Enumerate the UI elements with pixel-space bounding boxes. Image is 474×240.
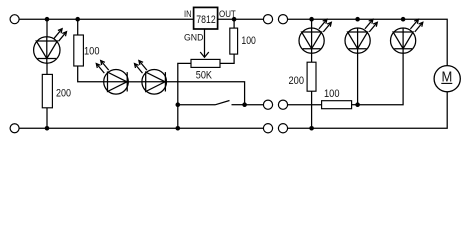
wire switch node to middle connector xyxy=(245,104,264,106)
svg-text:7812: 7812 xyxy=(196,14,215,26)
terminal connector top row left xyxy=(263,15,272,24)
node junction top rail / LED D1 xyxy=(45,17,50,22)
switch SW1 xyxy=(178,101,245,105)
wire middle connector to resistor R5 xyxy=(288,104,322,106)
wire OUT pin to top connector xyxy=(218,18,263,20)
node junction R4 / bottom rail xyxy=(309,126,314,131)
wiper arrowhead xyxy=(200,52,209,57)
terminal T1 (top left supply input) xyxy=(10,15,19,24)
wire pot left terminal left and down to rails xyxy=(178,63,191,128)
resistor R5 body (100 ohm horizontal) xyxy=(322,101,352,109)
LED D4 (right lamp 1, pointing down) xyxy=(299,19,331,53)
terminal connector middle row right xyxy=(278,100,287,109)
node junction bottom rail / R1 xyxy=(45,126,50,131)
svg-text:IN: IN xyxy=(184,9,192,19)
wire top rail down to resistor R2 xyxy=(77,19,79,35)
wire LED D3 right then down to switch node xyxy=(167,82,245,105)
wire between LED D2 and LED D3 xyxy=(128,81,142,83)
svg-text:GND: GND xyxy=(184,32,204,42)
potentiometer RV1 body (50K) xyxy=(191,59,220,67)
node junction OUT / R3 top xyxy=(232,17,237,22)
wire resistor R5 to mid junction xyxy=(352,104,358,106)
resistor R1 body (200 ohm left) xyxy=(42,74,52,107)
resistor R2 body (100 ohm left) xyxy=(74,35,84,66)
node junction bottom rail / pot drop xyxy=(176,126,181,131)
wire R3 top to OUT junction xyxy=(233,19,235,28)
wire LED D1 to resistor R1 xyxy=(46,63,48,74)
wire resistor R4 to bottom rail xyxy=(311,91,313,128)
svg-text:200: 200 xyxy=(56,87,71,99)
node junction top rail / LED D5 xyxy=(355,17,360,22)
wire GND pin down to potentiometer wiper xyxy=(204,29,206,57)
node junction top rail / LED D4 xyxy=(309,17,314,22)
wire LED D5 down to mid junction xyxy=(357,53,359,104)
terminal connector middle row left xyxy=(263,100,272,109)
wire resistor R2 down and right to LED row xyxy=(78,66,104,82)
svg-text:100: 100 xyxy=(241,35,256,47)
LED D1 (left lamp, pointing down) xyxy=(34,29,67,64)
svg-text:50K: 50K xyxy=(196,69,213,81)
svg-text:100: 100 xyxy=(324,88,340,100)
LED D5 (right lamp 2, pointing down) xyxy=(345,19,377,53)
terminal T2 (bottom left supply input) xyxy=(10,124,19,133)
wire bottom rail right section up to motor xyxy=(288,92,448,128)
resistor R4 body (200 ohm right) xyxy=(307,62,316,91)
node junction top rail / resistor R2 xyxy=(75,17,80,22)
motor M1 circle xyxy=(434,66,460,92)
svg-text:100: 100 xyxy=(84,45,100,57)
wire top rail to LED D4 xyxy=(311,19,313,28)
LED D2 (middle, pointing right) xyxy=(96,61,128,95)
wire top rail down to LED D1 xyxy=(46,19,48,37)
node junction top rail / LED D6 xyxy=(401,17,406,22)
node junction mid row R5 / D5 / D6 xyxy=(355,102,360,107)
LED D3 (middle, pointing right) xyxy=(135,61,167,95)
wire top rail left section xyxy=(19,18,194,20)
terminal connector bottom row left xyxy=(263,124,272,133)
wire pot right terminal to resistor R3 xyxy=(220,54,234,63)
node junction pot drop / switch row xyxy=(176,102,181,107)
motor M underline xyxy=(441,82,452,84)
resistor R3 body (100 ohm mid) xyxy=(230,28,238,54)
terminal connector bottom row right xyxy=(278,124,287,133)
svg-text:200: 200 xyxy=(289,75,305,87)
LED D6 (right lamp 3, pointing down) xyxy=(391,19,423,53)
node junction switch / LED branch xyxy=(242,102,247,107)
wire LED D4 to resistor R4 xyxy=(311,53,313,62)
wire bottom rail left section xyxy=(19,127,263,129)
terminal connector top row right xyxy=(278,15,287,24)
voltage regulator U1 7812 box xyxy=(194,7,218,29)
wire resistor R1 to bottom rail xyxy=(46,108,48,128)
wire top rail right section down to motor xyxy=(288,19,448,65)
wire LED D6 down then left to mid junction xyxy=(358,53,404,104)
